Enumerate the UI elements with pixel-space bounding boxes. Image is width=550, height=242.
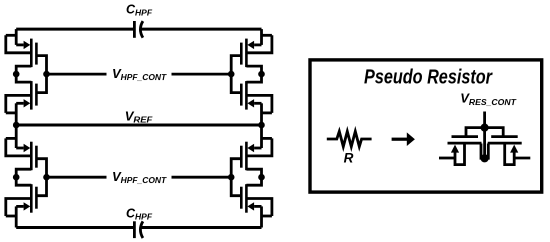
svg-text:R: R	[344, 150, 354, 165]
svg-text:Pseudo Resistor: Pseudo Resistor	[364, 67, 493, 89]
